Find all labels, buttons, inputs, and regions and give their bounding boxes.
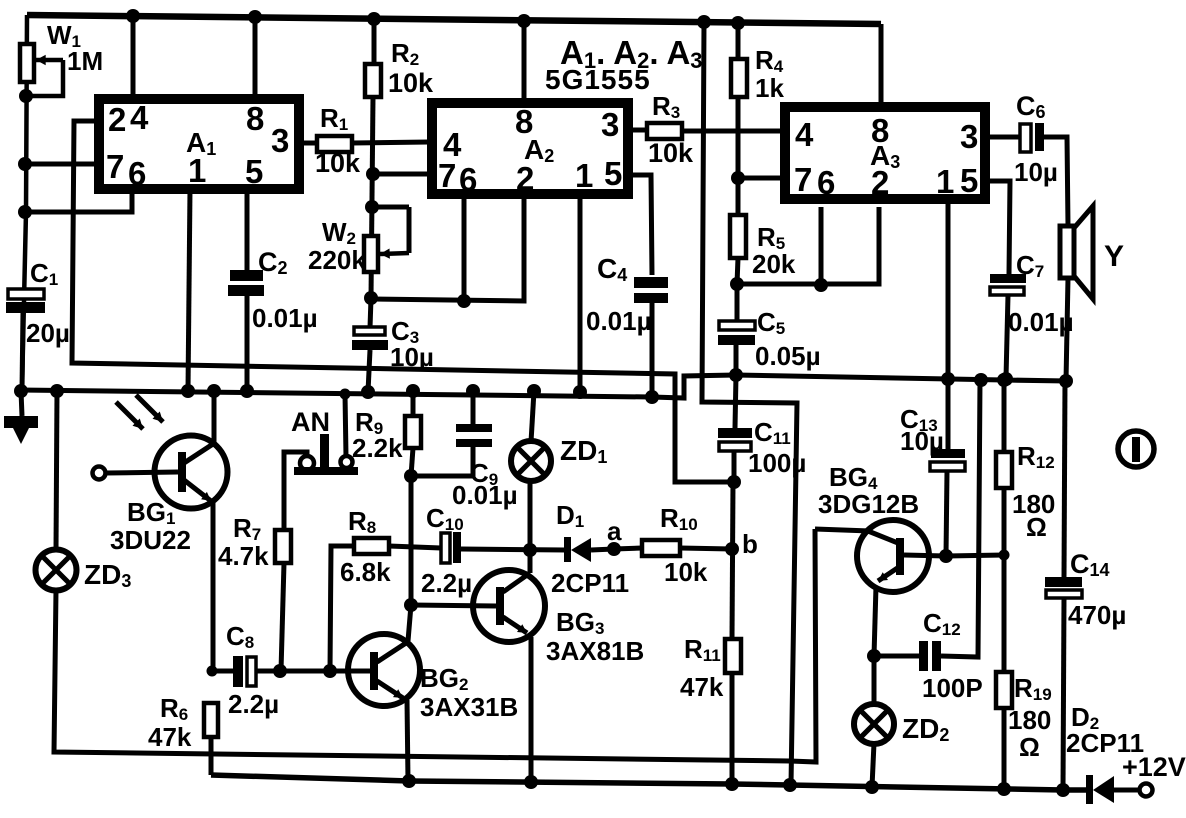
capacitor C13 bottom plate [930, 462, 965, 471]
junction W2 top [365, 200, 379, 214]
resistor R10 [642, 540, 680, 556]
svg-text:180: 180 [1008, 705, 1051, 735]
svg-text:10k: 10k [664, 557, 708, 587]
capacitor C9 bottom plate [456, 439, 492, 447]
wire R11 bottom [730, 673, 735, 784]
BG2 emitter diag [377, 681, 403, 698]
capacitor C13 top plate [931, 449, 965, 458]
capacitor C12 right plate [932, 641, 941, 671]
junction bus A2 pin1 [573, 385, 587, 399]
svg-text:6.8k: 6.8k [340, 557, 391, 587]
svg-text:2.2µ: 2.2µ [228, 689, 279, 719]
svg-text:47k: 47k [148, 722, 192, 752]
junction W1 bottom [19, 89, 33, 103]
svg-text:5: 5 [245, 153, 263, 190]
junction C11-loop [727, 475, 741, 489]
svg-text:220k: 220k [308, 245, 366, 275]
symbol circled I [1118, 431, 1154, 467]
svg-text:0.01µ: 0.01µ [252, 303, 318, 333]
wire BG1 emitter down [211, 500, 216, 671]
junction bottom BG3 [524, 775, 538, 789]
svg-text:4.7k: 4.7k [218, 541, 269, 571]
junction bottom ZD2 [865, 780, 879, 794]
junction top pin8 [248, 10, 262, 24]
lamp ZD2 [854, 704, 894, 744]
svg-text:1k: 1k [755, 73, 784, 103]
wire ZD3 top [56, 391, 57, 550]
junction top R4 [731, 16, 745, 30]
wire A3 pin7 line [738, 176, 785, 181]
junction bus C3 [361, 385, 375, 399]
junction bus d [240, 384, 254, 398]
capacitor C2 top plate [230, 270, 263, 281]
wire collector to R12 [946, 555, 1004, 556]
capacitor C3 bottom plate [352, 340, 388, 350]
BG3 base bar [496, 587, 504, 625]
junction bottom R13 [997, 782, 1011, 796]
junction bottom R11 [725, 777, 739, 791]
wire AN right lead [345, 394, 346, 457]
junction bus R9 [406, 384, 420, 398]
capacitor C1 bottom plate [6, 302, 45, 313]
BG1 base terminal [93, 467, 106, 480]
junction BG4 collector C13 [939, 549, 953, 563]
capacitor C11 bottom plate [719, 442, 751, 451]
light arrow 2 [136, 395, 163, 422]
wire C8 right [256, 669, 330, 674]
wire A2 pin1 drop [578, 194, 583, 392]
junction bus c [207, 384, 221, 398]
wire A2 pin8 riser [522, 21, 527, 103]
junction R8-C8 [323, 664, 337, 678]
junction bus C9 [466, 384, 480, 398]
diode D1 triangle [571, 538, 591, 562]
junction C8 left [207, 666, 218, 677]
svg-text:6: 6 [817, 164, 835, 201]
lamp ZD3 [36, 550, 77, 591]
svg-text:6: 6 [459, 161, 477, 198]
wire W2 wiper loop [407, 207, 412, 253]
capacitor C10 right plate [453, 532, 461, 563]
switch AN bar [294, 467, 358, 475]
junction top A2 pin8 [517, 14, 531, 28]
svg-text:2.2µ: 2.2µ [421, 568, 472, 598]
wire top +V rail [27, 15, 881, 24]
wire C12 left [874, 654, 921, 659]
wire R8 to C10 [389, 546, 441, 548]
junction bus a [50, 384, 64, 398]
junction bus A3 pin1 [941, 372, 955, 386]
switch AN plunger [320, 434, 329, 468]
wire BG3 emitter down [529, 637, 534, 781]
junction pin6-2 line [730, 277, 744, 291]
wire ZD1 top [531, 391, 534, 442]
svg-text:b: b [742, 529, 758, 559]
wire C13 top [946, 379, 951, 450]
svg-text:3: 3 [601, 106, 619, 143]
wire BG2 collector up [408, 605, 411, 641]
resistor R6 [204, 703, 218, 737]
wire A1 pin7 to rail [24, 162, 99, 167]
svg-text:100µ: 100µ [748, 448, 806, 478]
wire A3 pin6-2 link [737, 207, 879, 284]
wire C14 bottom [1063, 598, 1064, 790]
BG3 collector diag [503, 573, 530, 592]
wire A2 pin6 drop [462, 194, 467, 301]
capacitor C7 top plate [990, 274, 1026, 283]
svg-text:3DG12B: 3DG12B [818, 489, 919, 519]
svg-text:8: 8 [871, 112, 889, 149]
svg-text:2: 2 [108, 101, 126, 138]
wire to BG2 base [330, 669, 371, 674]
junction bus C5 [729, 368, 743, 382]
potentiometer W1 [20, 44, 34, 82]
wire BG4 base [815, 529, 870, 531]
wire C11 top [735, 375, 736, 428]
svg-text:100P: 100P [922, 673, 983, 703]
wire C9 bottom [471, 447, 476, 476]
junction collector R12 [999, 550, 1010, 561]
wire C5 wires [735, 284, 740, 321]
wire W1 wiper loop [28, 60, 63, 96]
BG4 base diag [868, 531, 898, 543]
resistor R13 [996, 672, 1012, 708]
wire speaker down [1066, 278, 1068, 381]
junction bus AN [340, 389, 351, 400]
junction A3 pin6 [814, 278, 828, 292]
wire R1 to A2 pin4 [352, 142, 429, 143]
wire R9 bottom [411, 448, 413, 476]
wire BG3 base line [411, 605, 496, 606]
capacitor C11 top plate [718, 428, 752, 438]
wire R4 to pin7 [736, 97, 741, 178]
junction D1 line ZD1 [523, 543, 537, 557]
node a dot [607, 542, 621, 556]
capacitor C5 top plate [719, 321, 755, 330]
wire R12 top [1002, 380, 1007, 452]
switch AN right contact [341, 456, 353, 468]
svg-text:470µ: 470µ [1068, 600, 1126, 630]
junction rail pin6 [18, 205, 32, 219]
BG4 base bar [896, 538, 904, 575]
capacitor C6 right plate [1035, 123, 1044, 151]
svg-text:1: 1 [575, 157, 593, 194]
wire R10 to b [680, 548, 732, 549]
svg-text:Ω: Ω [1019, 732, 1040, 762]
svg-text:AN: AN [291, 407, 330, 437]
wire C10 to D1 [461, 549, 566, 550]
junction W2 bottom [364, 291, 378, 305]
wire left rail [22, 15, 27, 390]
wire A1 pin8 riser [253, 17, 258, 99]
svg-text:3AX81B: 3AX81B [546, 636, 644, 666]
diode D2 triangle [1093, 776, 1114, 803]
diode D1 cathode bar [564, 537, 571, 562]
capacitor C9 top plate [456, 424, 492, 432]
wire R12 to R13 [1002, 488, 1007, 672]
wire rail R9-BG2 [409, 476, 414, 605]
wire A1 pin2 long line [72, 121, 734, 482]
svg-text:4: 4 [130, 99, 149, 136]
wire W2 to C3 [370, 298, 371, 328]
junction pin7 A2 [366, 167, 380, 181]
wire A3 pin1 drop [946, 199, 951, 379]
wire C7 bottom [1006, 295, 1008, 378]
potentiometer W2 [364, 236, 378, 272]
junction top R2 [367, 12, 381, 26]
wire C6 to speaker [1044, 137, 1068, 226]
svg-text:2: 2 [516, 160, 534, 197]
svg-text:8: 8 [515, 103, 533, 140]
wire W2 wiper from top [372, 205, 409, 210]
ground symbol [4, 416, 38, 428]
junction bottom BG2 [402, 774, 416, 788]
wire ZD3 bottom long [54, 529, 816, 762]
phototransistor BG1 circle [155, 436, 228, 509]
BG1 collector diag [184, 444, 213, 463]
svg-text:5: 5 [604, 155, 622, 192]
junction pin6 A2 bottom [457, 294, 471, 308]
capacitor C2 bottom plate [228, 285, 264, 296]
svg-text:a: a [607, 516, 622, 546]
wire A3 pin6 drop [819, 207, 824, 285]
op-amp/timer A2 box [432, 103, 628, 194]
wire A1 pin6 drop [25, 189, 132, 212]
wire W2 wiper arrow [380, 253, 409, 254]
wire A1 pin3 out [299, 141, 317, 146]
capacitor C3 top plate [354, 327, 385, 335]
svg-text:7: 7 [794, 161, 812, 198]
wire R7 bottom [281, 563, 284, 671]
wire BG4 emitter down [874, 586, 876, 656]
wire BG3 collector up [528, 550, 533, 573]
resistor R11 [725, 639, 741, 673]
wire R3 to A3 pin4 [682, 129, 785, 134]
speaker Y body [1060, 226, 1074, 278]
junction BG2-BG3 base [404, 598, 418, 612]
svg-text:10µ: 10µ [390, 342, 434, 372]
wire R2 to W2 [371, 97, 373, 298]
junction bottom link [783, 778, 797, 792]
svg-text:1: 1 [188, 152, 206, 189]
svg-text:2.2k: 2.2k [352, 433, 403, 463]
wire R9 top [411, 391, 416, 416]
capacitor C5 bottom plate [718, 335, 755, 345]
capacitor C1 top plate [8, 289, 44, 299]
wire ZD2 top [872, 656, 877, 705]
wire D1 to a [591, 549, 614, 550]
svg-text:20µ: 20µ [26, 318, 70, 348]
resistor R8 [354, 538, 389, 554]
svg-text:8: 8 [246, 100, 264, 137]
svg-text:10k: 10k [648, 138, 694, 168]
svg-text:1M: 1M [67, 46, 103, 76]
capacitor C7 bottom plate [990, 287, 1024, 295]
junction bottom C14 [1056, 783, 1070, 797]
svg-text:6: 6 [128, 155, 146, 192]
resistor R5 [730, 215, 746, 258]
svg-text:5: 5 [960, 162, 978, 199]
BG2 base bar [370, 652, 378, 690]
BG2 collector diag [377, 643, 406, 662]
wire R5 bottom [737, 258, 738, 284]
speaker Y cone [1074, 206, 1093, 299]
junction bus C4 [645, 390, 659, 404]
wire R4 riser [736, 23, 741, 59]
junction bus ZD1 [527, 384, 541, 398]
junction R7-C8 [273, 664, 287, 678]
svg-text:1: 1 [936, 163, 954, 200]
svg-text:3: 3 [960, 118, 978, 155]
resistor R12 [996, 452, 1012, 488]
junction top V3 [697, 15, 711, 29]
wire R6 bottom [209, 737, 214, 775]
svg-text:3: 3 [271, 122, 289, 159]
wire b rail [732, 482, 733, 639]
wire A3 pin3 out [985, 135, 1020, 140]
BG4 collector line [904, 555, 946, 556]
svg-text:2CP11: 2CP11 [551, 568, 629, 598]
junction top pin4 [126, 9, 140, 23]
capacitor C6 left plate [1020, 124, 1031, 152]
wire C12 right [941, 380, 980, 657]
wire C2 bottom [245, 296, 250, 391]
wire R13 bottom [1002, 708, 1007, 789]
transistor BG3 circle [473, 570, 545, 642]
BG4 emitter diag [878, 567, 899, 581]
diode D2 cathode bar [1086, 775, 1093, 804]
wire A2 pin3 out [628, 128, 647, 133]
lamp ZD1 [511, 441, 551, 481]
capacitor C12 left plate [919, 641, 928, 671]
capacitor C14 bottom plate [1046, 590, 1082, 598]
resistor R3 [647, 123, 682, 139]
wire D2 to terminal [1114, 788, 1139, 793]
junction bus left [14, 384, 28, 398]
wire R5 top [736, 178, 741, 215]
junction A3 pin7 [731, 171, 745, 185]
node b dot [725, 542, 739, 556]
wire A2 pin2 drop [370, 194, 524, 301]
resistor R4 [731, 59, 747, 97]
junction bus C12 [974, 373, 988, 387]
svg-text:Y: Y [1104, 240, 1124, 273]
resistor R2 [365, 64, 381, 97]
wire BG1 collector [212, 391, 217, 445]
wire R2 riser [372, 19, 377, 64]
BG3 emitter diag [503, 617, 527, 633]
svg-text:Ω: Ω [1026, 512, 1047, 542]
op-amp/timer A3 box [785, 107, 985, 199]
wire W1 wiper arrow [36, 58, 63, 63]
capacitor C10 left plate [441, 533, 450, 563]
wire C13 bottom [946, 471, 947, 556]
wire AN left lead [284, 452, 307, 530]
svg-text:10µ: 10µ [900, 426, 944, 456]
wire A1 pin5 drop [245, 189, 250, 271]
junction bus R12 [997, 373, 1011, 387]
wire A3 pin5 stub [985, 181, 1010, 274]
junction BG4 emitter C12 [867, 649, 881, 663]
wire +V feed right [702, 22, 797, 785]
BG1 emitter diag [184, 480, 211, 501]
switch AN left contact [300, 456, 314, 470]
svg-text:7: 7 [438, 157, 456, 194]
transistor BG4 circle [857, 520, 929, 592]
svg-text:0.01µ: 0.01µ [586, 306, 652, 336]
junction rail pin7 [18, 157, 32, 171]
svg-text:0.01µ: 0.01µ [452, 480, 518, 510]
wire A1 pin4 riser [131, 15, 136, 99]
svg-text:10k: 10k [315, 148, 361, 178]
wire A3 pin8 riser [879, 24, 884, 107]
capacitor C8 right plate [247, 657, 256, 686]
wire ZD2 bottom [872, 743, 874, 787]
junction bus speaker [1059, 374, 1073, 388]
wire C3 bottom [368, 350, 370, 392]
wire to ground [21, 391, 22, 416]
wire A1 pin1 drop [188, 189, 190, 391]
transistor BG2 circle [348, 634, 420, 706]
wire C8 left [213, 669, 233, 674]
resistor R7 [275, 530, 291, 563]
resistor R1 [317, 136, 352, 152]
svg-text:2: 2 [871, 164, 889, 201]
wire C14 top [1064, 381, 1065, 577]
wire ground bus [19, 375, 1068, 398]
light arrow 1 [116, 402, 143, 429]
capacitor C4 bottom plate [634, 293, 668, 303]
wire A2 pin5 stub [628, 175, 652, 275]
wire A2 pin7 line [373, 172, 432, 177]
terminal +12V [1140, 784, 1153, 797]
capacitor C8 left plate [233, 656, 243, 687]
svg-text:10µ: 10µ [1014, 157, 1058, 187]
svg-text:10k: 10k [388, 68, 434, 98]
svg-text:3DU22: 3DU22 [110, 525, 191, 555]
junction bus b [181, 384, 195, 398]
svg-text:5G1555: 5G1555 [545, 64, 651, 95]
wire bottom bus [211, 775, 1086, 790]
svg-text:20k: 20k [752, 249, 796, 279]
svg-text:47k: 47k [680, 672, 724, 702]
junction R9-C9 [404, 469, 418, 483]
svg-text:4: 4 [795, 116, 814, 153]
resistor R9 [405, 416, 421, 448]
wire C9 top [471, 391, 476, 424]
wire R8 left lead [330, 546, 354, 671]
wire C11 bottom [732, 451, 737, 482]
capacitor C14 top plate [1045, 577, 1082, 587]
wire BG2 emitter down [407, 700, 408, 781]
svg-text:0.01µ: 0.01µ [1008, 307, 1074, 337]
op-amp/timer A1 box [99, 99, 299, 189]
wire ZD1 bottom [528, 480, 533, 550]
BG1 base bar [178, 452, 186, 492]
wire C4 bottom [650, 303, 655, 397]
junction bus C7 [999, 372, 1013, 386]
wire a to R10 [614, 548, 642, 549]
wire C1 top [22, 312, 23, 391]
svg-text:0.05µ: 0.05µ [755, 341, 821, 371]
svg-text:3AX31B: 3AX31B [420, 692, 518, 722]
capacitor C4 top plate [634, 277, 668, 288]
wire R9 to C9 [411, 474, 473, 479]
svg-text:7: 7 [106, 148, 124, 185]
svg-text:+12V: +12V [1122, 752, 1186, 782]
